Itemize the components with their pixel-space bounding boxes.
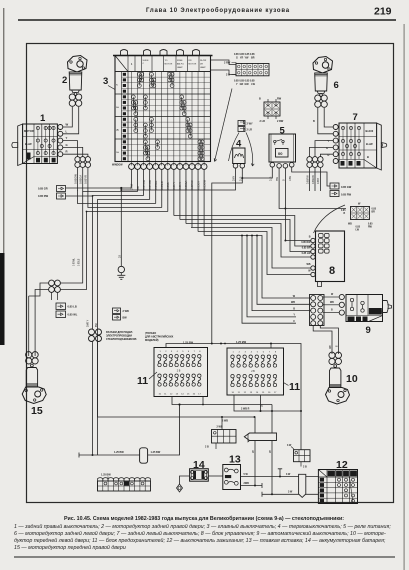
switch block 7 (rear left window switch) — [326, 112, 387, 170]
svg-text:OFF: OFF — [328, 472, 334, 476]
banner / ribbon pointer — [244, 433, 276, 442]
svg-text:2 LR: 2 LR — [260, 120, 266, 123]
svg-text:0.85 RW: 0.85 RW — [341, 193, 352, 197]
wire switch1 G to connector — [63, 147, 83, 156]
wire from master pin 12 — [197, 169, 199, 231]
wire to M15 left — [28, 296, 30, 356]
svg-text:LAMP: LAMP — [200, 66, 206, 69]
stubs below C-left — [52, 292, 58, 300]
svg-text:Y: Y — [66, 136, 68, 140]
fuse box bottom wires — [172, 397, 272, 405]
bus wires right side: nest to control unit 8 and breaker connector — [174, 216, 311, 247]
thermal switch 4 — [233, 139, 245, 169]
svg-text:MOTOR: MOTOR — [165, 64, 173, 66]
svg-text:0.85: 0.85 — [368, 224, 373, 226]
svg-text:0.85: 0.85 — [372, 209, 377, 211]
svg-text:0.85 WL: 0.85 WL — [68, 313, 78, 317]
page left gutter line — [3, 8, 4, 255]
svg-text:MOTOR: MOTOR — [189, 64, 197, 66]
svg-text:13: 13 — [229, 454, 241, 466]
svg-text:0.85 RW: 0.85 RW — [38, 194, 49, 198]
svg-text:RL/RR: RL/RR — [200, 60, 207, 62]
leader arc near control unit 8 — [314, 205, 346, 233]
svg-text:2B: 2B — [261, 404, 263, 407]
wire from master pin 1 — [131, 169, 133, 187]
svg-text:2B: 2B — [118, 255, 121, 258]
wire switch1 Y to connector — [63, 141, 78, 157]
svg-text:8: 8 — [275, 352, 277, 354]
svg-text:СТЕКЛОПОДЪЕМНИКОВ: СТЕКЛОПОДЪЕМНИКОВ — [106, 338, 137, 341]
svg-text:LW: LW — [356, 230, 360, 232]
switch 1 pins W L Y G R — [58, 125, 63, 130]
svg-text:2 B: 2 B — [205, 446, 209, 449]
master switch 3 (matrix table) — [113, 50, 213, 166]
battery earth clamp — [177, 476, 190, 492]
inline plug 0.85 LB — [56, 303, 77, 310]
relay 5 pin3 (B) to control unit 8 pin1 — [285, 168, 310, 240]
motor-reducer M6 (rear left door) — [313, 57, 339, 108]
svg-text:13: 13 — [250, 392, 253, 394]
svg-text:G: G — [66, 143, 68, 147]
svg-text:BW: BW — [123, 317, 128, 320]
motor-reducer M10 (front left door) — [326, 352, 358, 404]
svg-text:0.85LB: 0.85LB — [79, 258, 81, 266]
connector block top middle (6x2) — [236, 64, 269, 76]
wires through banner — [254, 417, 256, 486]
wire stubs from switch1 cluster down — [77, 168, 79, 191]
svg-text:3: 3 — [103, 76, 108, 87]
svg-text:AM.P.U: AM.P.U — [177, 63, 184, 66]
svg-text:RW: RW — [277, 98, 282, 101]
svg-text:2 WB R: 2 WB R — [241, 408, 250, 411]
wire battery to link 13 — [208, 475, 223, 477]
svg-text:DR: DR — [200, 64, 204, 66]
svg-text:N: N — [116, 85, 118, 87]
svg-text:10W: 10W — [289, 175, 292, 181]
svg-text:Y GR GW LW: Y GR GW LW — [236, 83, 256, 86]
wires through C-mid connector — [92, 342, 94, 456]
svg-text:TO: TO — [165, 60, 168, 62]
svg-text:12: 12 — [170, 394, 173, 396]
wire link 13 to ignition switch (5W) — [241, 476, 319, 478]
svg-text:WB: WB — [330, 302, 334, 304]
wire switch7 Y to cluster — [315, 141, 333, 157]
ignition feed pill — [299, 474, 306, 497]
page header — [18, 6, 396, 21]
inline plug 0.85 RW — [38, 193, 66, 199]
svg-text:W: W — [66, 123, 69, 127]
svg-text:0.85 GW: 0.85 GW — [341, 185, 352, 189]
inline plug 0.85 GR — [38, 186, 66, 192]
wire from master pin 3 — [143, 169, 145, 195]
svg-text:2WB Y: 2WB Y — [88, 319, 90, 327]
stub with terminal — [278, 469, 282, 477]
relay 5 pin1 (2LR) joins — [242, 167, 272, 178]
svg-text:1.25 BW: 1.25 BW — [101, 474, 111, 477]
svg-text:B: B — [313, 120, 315, 123]
svg-text:WB: WB — [291, 301, 295, 304]
inline plug 0.85 WL — [56, 311, 78, 318]
svg-text:5: 5 — [182, 351, 184, 353]
svg-text:2: 2 — [165, 351, 167, 353]
wire from master pin 9 — [179, 169, 181, 219]
svg-text:0.85: 0.85 — [356, 227, 361, 229]
svg-text:3 W: 3 W — [286, 473, 291, 476]
master switch 3 bottom pin row — [129, 164, 207, 170]
svg-text:W: W — [331, 294, 334, 296]
svg-text:5: 5 — [257, 352, 259, 354]
svg-text:10: 10 — [159, 394, 162, 396]
connector (2x5) before breaker 9 — [310, 295, 325, 326]
small connector grid (3W) — [294, 450, 311, 462]
svg-text:W: W — [293, 295, 296, 298]
plug 2LR — [238, 127, 252, 132]
svg-text:0.85 BR: 0.85 BR — [302, 247, 311, 250]
svg-text:0.85GW: 0.85GW — [73, 174, 77, 184]
wire from master pin 11 — [191, 169, 193, 227]
svg-text:15: 15 — [262, 392, 265, 394]
page right edge shadow — [404, 24, 405, 570]
motor-reducer M2 (rear right door) — [62, 56, 87, 107]
svg-text:7: 7 — [269, 352, 271, 354]
svg-text:3: 3 — [245, 352, 247, 354]
plug 2WB/BW symbol — [113, 308, 129, 320]
svg-text:C: C — [293, 320, 295, 323]
svg-text:Bx100: Bx100 — [366, 129, 374, 133]
caption text — [14, 515, 391, 551]
battery 14 — [190, 459, 209, 481]
svg-text:6: 6 — [188, 351, 190, 353]
svg-text:2 RW: 2 RW — [224, 62, 231, 65]
svg-text:B: B — [309, 236, 311, 239]
breaker 9 pins — [339, 294, 344, 299]
svg-text:EARTH: EARTH — [370, 310, 383, 314]
svg-text:10: 10 — [346, 373, 358, 385]
svg-text:00: 00 — [278, 151, 283, 156]
svg-text:6 — моторедуктор задней левой: 6 — моторедуктор задней левой двери; 7 —… — [14, 530, 386, 537]
svg-text:МОДЕЛЕЙ): МОДЕЛЕЙ) — [145, 339, 159, 342]
switch block 1 (rear right window switch) — [12, 113, 69, 166]
svg-text:FREE: FREE — [177, 60, 183, 62]
svg-text:BR: BR — [372, 212, 376, 214]
plug 2WY — [238, 121, 253, 126]
svg-text:B: B — [259, 98, 261, 101]
svg-text:15: 15 — [31, 405, 43, 417]
caption rule — [14, 556, 395, 558]
svg-text:W: W — [358, 203, 361, 206]
svg-text:16: 16 — [268, 392, 271, 394]
svg-text:6: 6 — [334, 80, 339, 91]
svg-text:15 — моторедуктор передней пра: 15 — моторедуктор передней правой двери — [14, 544, 126, 551]
svg-text:1.25 BW: 1.25 BW — [151, 451, 161, 454]
svg-text:5: 5 — [280, 126, 286, 137]
svg-text:C: C — [143, 63, 145, 65]
svg-text:6: 6 — [263, 352, 265, 354]
svg-text:BAT: BAT — [348, 317, 354, 321]
schematic frame — [27, 44, 394, 503]
X-connector stubs — [268, 99, 276, 119]
svg-text:14: 14 — [256, 392, 259, 394]
svg-text:7: 7 — [194, 351, 196, 353]
motor-reducer M15 (front right door) — [22, 352, 46, 417]
svg-text:G YR YW BR: G YR YW BR — [236, 57, 255, 60]
wire from master pin 2 — [137, 169, 139, 191]
svg-text:0.85 RW: 0.85 RW — [301, 241, 311, 244]
X-connector (2x2) with B / RW — [264, 102, 280, 116]
svg-text:2 B: 2 B — [226, 74, 230, 77]
svg-text:SLIDE: SLIDE — [143, 60, 150, 62]
wire from master pin 10 — [185, 169, 187, 223]
svg-text:2 B: 2 B — [251, 370, 255, 373]
svg-text:10: 10 — [232, 392, 235, 394]
svg-text:дуктор передней левой двери; 1: дуктор передней левой двери; 11 — блок п… — [14, 537, 386, 544]
connector grid bottom middle — [212, 430, 237, 444]
book spine shadow — [0, 253, 5, 345]
curved leaders from plugs — [229, 133, 240, 162]
wire M2 to switch 1 pin W — [63, 107, 72, 127]
svg-text:1: 1 — [131, 63, 133, 66]
svg-text:5 W: 5 W — [244, 473, 249, 476]
master switch 3 row grid — [121, 72, 123, 162]
svg-text:8: 8 — [329, 265, 335, 277]
svg-text:1A: 1A — [116, 151, 119, 154]
switch 7 pins — [333, 125, 338, 130]
fusible link 13 — [223, 454, 241, 490]
wire M6 to switch7 pin2 — [318, 108, 333, 134]
svg-text:1 — задний правый выключатель;: 1 — задний правый выключатель; 2 — мотор… — [14, 523, 391, 530]
svg-text:B-LW: B-LW — [25, 142, 32, 146]
svg-text:2B: 2B — [253, 450, 255, 453]
stub from RW plug east — [66, 195, 93, 197]
svg-text:4: 4 — [177, 351, 179, 353]
svg-text:R: R — [66, 150, 68, 154]
wire master switch to top connector — [211, 60, 237, 65]
svg-text:11: 11 — [137, 375, 148, 387]
svg-text:Y: Y — [293, 314, 295, 317]
connector strip (bulkhead) — [98, 478, 151, 491]
control unit 8 — [316, 231, 345, 287]
svg-text:0.85: 0.85 — [341, 210, 346, 212]
svg-text:WB: WB — [330, 345, 332, 349]
wire M2 to switch 1 pin L — [63, 107, 79, 134]
svg-text:2 B: 2 B — [303, 466, 307, 469]
wire link 13 2WB — [241, 485, 263, 487]
svg-text:7: 7 — [353, 112, 358, 123]
power relay 5 — [269, 126, 296, 169]
wires C-left to M15 — [29, 283, 49, 296]
connector C-mid (2x2) — [89, 329, 102, 342]
svg-text:8: 8 — [199, 351, 201, 353]
svg-text:ST: ST — [351, 472, 355, 476]
svg-text:2WB: 2WB — [244, 482, 250, 485]
wire from master pin 4 — [149, 169, 151, 199]
inline plug 0.85 RW — [330, 191, 352, 197]
svg-text:4: 4 — [251, 352, 253, 354]
svg-text:2 WY: 2 WY — [247, 123, 253, 126]
svg-text:B: B — [367, 155, 369, 159]
svg-text:WB: WB — [307, 263, 311, 266]
wire M6 to switch7 pin1 — [324, 108, 333, 127]
svg-text:2 WB: 2 WB — [222, 420, 228, 423]
connector bumps on top of master switch 3 — [121, 50, 128, 56]
svg-text:ON: ON — [344, 472, 348, 476]
svg-text:3: 3 — [171, 351, 173, 353]
svg-text:0.85RW: 0.85RW — [306, 175, 309, 184]
svg-text:2B: 2B — [270, 450, 272, 453]
svg-text:L: L — [66, 129, 68, 133]
svg-text:Глава 10 Электрооборудование к: Глава 10 Электрооборудование кузова — [146, 7, 290, 14]
svg-text:0.85GW: 0.85GW — [312, 174, 315, 184]
wire stubs from switch7 cluster down — [309, 168, 311, 191]
svg-text:0.85Y: 0.85Y — [317, 177, 320, 184]
svg-text:G: G — [326, 146, 328, 150]
svg-text:B: B — [344, 213, 346, 215]
riser thermal switch 4 pin2 (2LR) down to fuse feed — [212, 168, 243, 343]
wire from master pin 13 — [203, 169, 205, 235]
svg-text:RW: RW — [368, 227, 373, 229]
svg-text:1: 1 — [40, 113, 46, 124]
relay 5 pin2 (BW) east bus — [279, 168, 346, 208]
svg-text:2: 2 — [62, 75, 67, 86]
svg-text:16: 16 — [193, 394, 196, 396]
svg-text:14: 14 — [181, 394, 184, 396]
svg-text:17: 17 — [274, 392, 277, 394]
connector (3x2) below switch 7 — [307, 157, 323, 168]
inline plug 0.85 GW — [330, 183, 352, 189]
svg-text:12: 12 — [244, 392, 247, 394]
svg-text:1: 1 — [160, 351, 162, 353]
svg-text:R: R — [328, 153, 330, 157]
connector C-left (2x2) — [49, 280, 61, 292]
svg-text:RR: RR — [189, 60, 193, 62]
svg-text:0.85YR: 0.85YR — [84, 175, 88, 184]
svg-text:(A): (A) — [116, 129, 119, 132]
wire switch7 R to cluster — [320, 154, 333, 156]
svg-text:B: B — [293, 307, 295, 310]
svg-text:11: 11 — [164, 394, 167, 396]
leader arrow to pin row — [214, 89, 232, 162]
svg-text:1.25 BW: 1.25 BW — [114, 451, 124, 454]
svg-text:2 B: 2 B — [177, 370, 181, 373]
wire to M10 (WB) — [313, 326, 332, 355]
wire to M15 right — [34, 296, 36, 356]
svg-text:MOTOR: MOTOR — [24, 129, 34, 133]
svg-text:Рис. 10.45. Схема моделей 1982: Рис. 10.45. Схема моделей 1982-1983 года… — [64, 515, 344, 522]
svg-text:ACC: ACC — [336, 472, 342, 476]
wire from master pin 8 — [173, 169, 175, 215]
wire from master pin 7 — [167, 169, 169, 211]
svg-text:2 LR: 2 LR — [247, 129, 253, 132]
wire from master pin 6 — [161, 169, 163, 207]
svg-text:9: 9 — [366, 325, 371, 336]
ground G1 — [117, 188, 125, 279]
svg-text:5A: 5A — [116, 106, 119, 109]
X-connector right (3x2) — [351, 207, 370, 220]
wire switch7 G to cluster — [310, 147, 334, 156]
ignition switch 12 (table) — [318, 459, 357, 504]
riser from thermal switch 4 pin1 — [121, 168, 235, 190]
lower wire to ignition switch — [262, 493, 318, 495]
svg-text:B: B — [331, 310, 333, 312]
svg-text:15: 15 — [187, 394, 190, 396]
wire to M10 (B) — [320, 326, 338, 355]
svg-text:0.85 LB: 0.85 LB — [68, 305, 77, 309]
fuse box 11 (left, australia) — [154, 348, 208, 397]
wire switch1 R to connector — [63, 154, 88, 156]
svg-text:W: W — [308, 270, 311, 273]
control unit 8 pins — [301, 236, 315, 277]
fuse box 11 (right) — [227, 348, 284, 395]
svg-text:0.85WL: 0.85WL — [74, 257, 76, 266]
svg-text:WINDOW: WINDOW — [112, 164, 123, 167]
svg-text:11: 11 — [289, 381, 300, 393]
svg-text:2: 2 — [239, 352, 241, 354]
svg-text:1: 1 — [233, 352, 235, 354]
connector (3x2) below switch 1 — [75, 157, 91, 168]
riser from bus to grid — [300, 411, 302, 450]
svg-text:0.85 GR: 0.85 GR — [38, 187, 48, 191]
svg-text:3 W: 3 W — [288, 491, 293, 494]
svg-text:13: 13 — [176, 394, 179, 396]
svg-text:LAMP: LAMP — [177, 66, 183, 69]
bottom feed wire — [79, 405, 180, 456]
svg-text:2 RW: 2 RW — [277, 120, 284, 123]
svg-text:0.85 LW: 0.85 LW — [302, 252, 312, 255]
svg-text:11: 11 — [238, 392, 241, 394]
fuse box supply wire 1.25BW — [166, 344, 301, 412]
svg-text:17: 17 — [198, 394, 201, 396]
svg-text:2 WB: 2 WB — [123, 310, 129, 313]
svg-text:LINK: LINK — [225, 476, 231, 479]
wire from master pin 5 — [155, 169, 157, 203]
fuse inline bottom left — [140, 448, 148, 463]
svg-text:WB: WB — [348, 224, 352, 226]
relay 5 pin4 (10W) to inline plug — [292, 167, 330, 186]
svg-text:B-LW: B-LW — [366, 142, 373, 146]
svg-text:0.85GA: 0.85GA — [79, 175, 83, 184]
svg-text:219: 219 — [374, 6, 392, 18]
circuit breaker 9 — [346, 295, 392, 337]
